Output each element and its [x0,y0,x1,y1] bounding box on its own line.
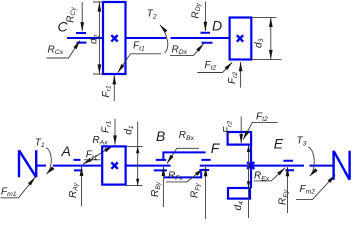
force RFx [166,169,203,183]
gear z4 upper body [228,132,252,145]
svg-text:E: E [274,136,284,152]
force Ft2 on gear z4 [243,111,278,139]
bearing E [283,161,294,171]
gear z4 web line [250,145,252,188]
svg-text:B: B [156,128,165,144]
svg-text:D: D [212,18,222,34]
coupling N right [334,151,350,180]
force RBx [167,130,199,164]
force REx [254,168,285,183]
force Fr1 on gear z1 [101,119,116,145]
gear z3 center mark [237,35,243,41]
torque T1 [35,137,52,174]
force RAx [83,135,113,164]
wire top shaft middle segment [126,37,230,39]
force Fr1 on gear z2 [101,75,115,101]
gear z1 body [102,146,125,184]
gear z2 center mark [111,35,117,41]
force RDy [190,2,205,32]
svg-text:F: F [211,140,221,156]
gear z2 body [103,2,126,74]
force Ft2 on gear z3 [197,60,232,73]
wire top shaft left segment [67,37,103,39]
dimension d4 [233,145,250,218]
gear z4 center mark [247,162,254,169]
bearing B [154,160,167,171]
force RCx [47,41,81,59]
sleeve bottom line between B and F [164,172,201,178]
gear z3 body [230,18,252,60]
force Fr2 on gear z4 [222,117,241,144]
force Ft1 on gear z1 label [84,150,101,162]
bearing D [201,33,213,43]
force RBy [150,167,163,207]
force RAy [68,167,82,206]
bearing F [199,160,210,170]
bearing C [76,33,87,43]
svg-text:A: A [61,143,71,159]
dimension d2 [89,2,104,74]
wire shaft 3 line [200,165,334,167]
force Fr2 on gear z3 [227,62,241,88]
dimension d3 [252,17,282,59]
force RDx [170,44,204,57]
wire shaft 1 stub [36,165,46,167]
force Fm1 [1,177,36,198]
gear z1 center mark [111,162,117,168]
torque T2 [147,9,168,54]
gear z4 lower body [228,188,250,199]
force Ft1 on gear z2 [118,41,161,73]
bearing A [74,160,83,171]
force RCy [65,2,82,31]
force RFy [190,167,206,219]
force Fm2 [296,175,335,200]
torque T3 [297,136,315,176]
coupling N left [19,150,36,177]
force REy [278,167,290,213]
sleeve top line between B and F [163,152,205,160]
wire shaft 1 line [53,165,171,167]
dimension d1 [123,122,142,186]
